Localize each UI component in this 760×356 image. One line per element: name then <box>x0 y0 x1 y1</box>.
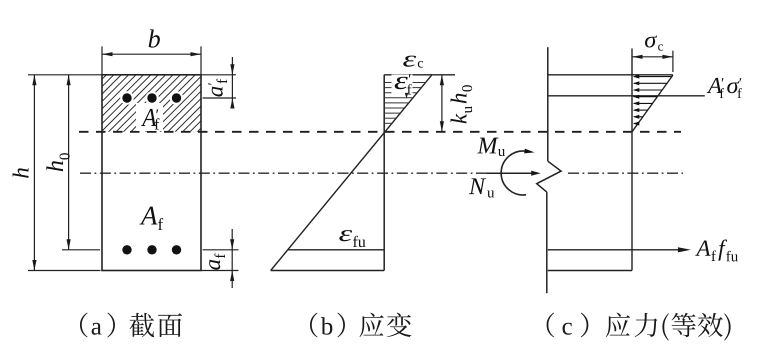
caption (b) letter b <box>321 317 333 335</box>
top rebar level line <box>548 95 705 97</box>
centroid dash-dot line (right of break) <box>568 172 683 174</box>
caption (a) char mian <box>158 313 182 337</box>
caption (c) char ying <box>606 313 630 337</box>
h extension lines <box>28 74 102 76</box>
label eps fu <box>339 230 365 247</box>
a'f extension lines <box>201 74 236 76</box>
caption (b) fullwidth paren open <box>310 313 318 338</box>
caption (c) char deng <box>672 313 696 337</box>
label Nu <box>469 178 494 197</box>
strain profile line <box>271 75 432 271</box>
caption (c) halfwidth paren close <box>724 313 730 340</box>
caption (b) char bian <box>387 313 412 338</box>
member axis top segment <box>547 47 549 161</box>
label Af ffu <box>695 240 738 262</box>
eps'f pointer arrow <box>406 94 408 96</box>
ku h0 dimension line <box>441 75 443 132</box>
strain axis <box>383 75 385 271</box>
caption (c) char xiao <box>698 313 723 337</box>
h0 extension line <box>62 249 100 251</box>
caption (c) letter c <box>563 323 572 335</box>
caption (c) char li <box>635 313 658 337</box>
label ku h0 <box>451 85 473 123</box>
top rebar bars A'f (3 dots) <box>122 93 131 102</box>
caption (a) char jie <box>130 313 155 337</box>
label eps'f <box>395 74 412 94</box>
label h0 <box>46 153 69 171</box>
af extension lines <box>203 249 239 251</box>
stress block vertical line <box>631 49 633 271</box>
caption (b) char ying <box>360 313 384 337</box>
label Mu <box>477 138 505 156</box>
centroid dash-dot line (left of break) <box>80 172 534 174</box>
sigma c extension tick <box>672 51 674 72</box>
caption (a) letter a <box>92 323 102 335</box>
section top edge line <box>548 74 673 76</box>
member axis bottom segment <box>546 192 548 293</box>
stress profile hypotenuse <box>632 75 673 132</box>
label eps c <box>403 56 423 68</box>
label af <box>209 254 225 270</box>
Nu force arrow <box>487 172 533 174</box>
label b <box>149 29 160 47</box>
a'f dimension line <box>231 57 233 106</box>
compression stress arrows <box>634 76 671 78</box>
strain bottom rebar line <box>288 249 384 251</box>
b dimension line <box>102 53 201 55</box>
strain top edge <box>384 74 455 76</box>
beam outline <box>102 75 201 271</box>
A'f label background <box>136 103 163 131</box>
h0 dimension line <box>68 75 70 250</box>
Mu moment arc <box>501 151 526 195</box>
label h <box>13 168 29 178</box>
strain bottom edge <box>271 270 385 272</box>
section bottom edge line <box>548 270 632 272</box>
af dimension line <box>231 229 233 288</box>
caption (c) fullwidth paren close <box>581 313 589 338</box>
neutral axis dashed line <box>79 131 681 133</box>
Af ffu tension arrow <box>548 249 679 251</box>
caption (c) fullwidth paren open <box>547 313 555 338</box>
label sigma c <box>645 35 663 50</box>
member axis break zigzag <box>537 161 561 192</box>
strain hatch lines <box>384 82 425 84</box>
label eps'f background <box>392 75 413 96</box>
label A'f <box>141 109 159 130</box>
caption (a) fullwidth paren open <box>80 313 88 338</box>
caption (c) halfwidth paren open <box>662 313 668 340</box>
sigma c dimension line <box>632 56 673 58</box>
label Af <box>140 207 164 230</box>
label a'f <box>208 79 227 97</box>
bottom rebar bars Af (3 dots) <box>122 245 131 254</box>
caption (b) fullwidth paren close <box>337 313 345 338</box>
b extension lines <box>101 46 103 74</box>
top rebar white halos <box>120 91 134 105</box>
label A'f sigma'f <box>707 78 742 98</box>
h dimension line <box>33 75 35 271</box>
caption (a) fullwidth paren close <box>107 313 115 338</box>
Mu arc arrowhead <box>524 149 534 154</box>
